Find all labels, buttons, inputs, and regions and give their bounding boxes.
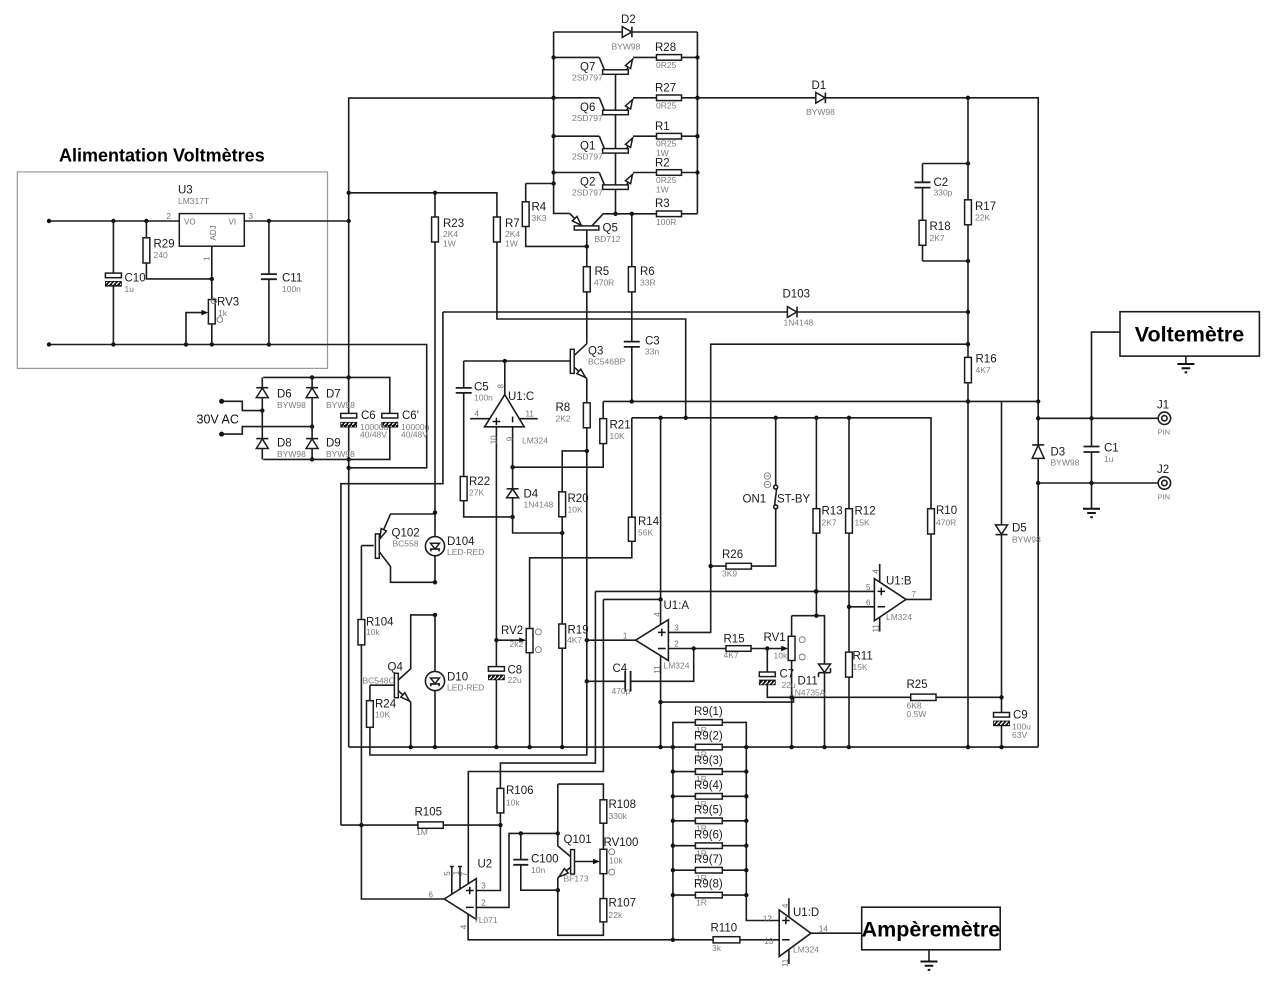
label U1:D (793, 907, 819, 955)
svg-text:R9(3): R9(3) (694, 755, 723, 767)
wire: C11 leads (268, 221, 270, 345)
wire: op-amp +V rail y417.8 (632, 416, 931, 509)
svg-text:R20: R20 (568, 493, 589, 505)
transistor Q102 (375, 514, 435, 582)
svg-text:LM317T: LM317T (178, 196, 209, 206)
svg-text:R29: R29 (154, 239, 175, 251)
wire: R5 bottom to Q3 collector (586, 292, 588, 344)
svg-text:Q4: Q4 (388, 662, 404, 674)
svg-text:BYW98: BYW98 (277, 449, 306, 459)
label C8 (508, 665, 523, 686)
svg-text:TL071: TL071 (474, 915, 498, 925)
svg-text:6: 6 (866, 598, 871, 607)
label C9 (1012, 710, 1031, 741)
svg-text:0.5W: 0.5W (907, 709, 927, 719)
svg-text:J1: J1 (1157, 400, 1169, 412)
svg-text:D1: D1 (812, 80, 827, 92)
wire: U1:D output (811, 932, 862, 934)
label R14 (638, 516, 660, 538)
wire: D11 bottom (824, 673, 826, 747)
svg-text:1: 1 (623, 631, 628, 640)
label R9(8) (694, 879, 723, 908)
wire: RV2 bottom (529, 653, 531, 747)
svg-text:2: 2 (481, 898, 486, 907)
svg-text:D5: D5 (1012, 523, 1027, 535)
wire: R6 bottom to C3 (631, 292, 633, 342)
wire: Q6 row y97.8 (554, 97, 698, 99)
svg-text:330p: 330p (934, 188, 953, 198)
Amperemetre box (862, 907, 1001, 950)
svg-text:R26: R26 (722, 549, 743, 561)
svg-text:8: 8 (497, 384, 506, 389)
wire: J2 row y483 (1038, 481, 1158, 485)
svg-text:4: 4 (653, 612, 662, 617)
svg-text:BF173: BF173 (564, 874, 589, 884)
wire: RV1 bottom (791, 661, 793, 748)
wire: bus y591.4 to U1:B plus (595, 589, 874, 593)
label R2 (655, 158, 677, 195)
svg-text:ST-BY: ST-BY (777, 494, 811, 506)
svg-text:U2: U2 (478, 859, 493, 871)
resistor R19 (559, 624, 566, 648)
resistor R11 (846, 652, 853, 677)
resistor R6 (628, 267, 635, 292)
label R8 (556, 402, 571, 424)
diode D6 (256, 388, 268, 398)
wire: R26 row y566.1 (711, 509, 776, 566)
wire: Q101 emitter to R107 bottom (558, 878, 604, 935)
svg-text:D7: D7 (326, 389, 341, 401)
label 30V AC (197, 413, 239, 427)
label R3 (655, 198, 676, 227)
label C11 (282, 273, 302, 295)
label D5 (1012, 523, 1041, 545)
svg-text:R9(6): R9(6) (694, 829, 723, 841)
wire: RV2 wiper (496, 639, 523, 641)
wire: U1:C plus to RV2 wiper and C8 x496.4 (494, 427, 498, 747)
svg-text:RV1: RV1 (764, 632, 786, 644)
svg-text:Alimentation Voltmètres: Alimentation Voltmètres (59, 146, 265, 166)
label R21 (610, 420, 631, 442)
resistor R26 (726, 563, 751, 569)
label C100 (531, 854, 559, 876)
diode D3 (1032, 445, 1044, 459)
label R12 (855, 506, 876, 528)
wire: R7 bottom to +Vop rail (497, 242, 686, 418)
diode D103 (787, 307, 797, 318)
resistor R106 (497, 788, 504, 813)
svg-text:10K: 10K (610, 431, 625, 441)
wire: R108-RV100-R107 chain x603.4 (602, 823, 604, 898)
svg-text:ADJ: ADJ (209, 225, 218, 240)
svg-text:10k: 10k (366, 627, 380, 637)
svg-text:R105: R105 (415, 807, 443, 819)
svg-text:1W: 1W (656, 148, 669, 158)
svg-text:RV100: RV100 (604, 837, 639, 849)
wire: C2/R18 branch x922.5 (923, 161, 971, 263)
zener diode D11 (819, 664, 831, 677)
label D11 (790, 676, 826, 698)
transistor Q7 (599, 57, 633, 74)
svg-text:C6: C6 (361, 410, 376, 422)
label D103 (783, 289, 814, 328)
svg-text:D8: D8 (277, 438, 292, 450)
label C7 (780, 669, 796, 691)
wire: main +V rail to PSU x348.7 (347, 98, 554, 413)
svg-text:RV3: RV3 (217, 297, 239, 309)
svg-text:PIN: PIN (1158, 493, 1171, 502)
svg-text:7: 7 (460, 871, 469, 876)
wire: R9 ladder left rail x672.9 (671, 722, 696, 939)
wire: Q7 row y57.4 (554, 56, 698, 58)
svg-text:R9(7): R9(7) (694, 854, 723, 866)
capacitor C5 (456, 388, 472, 393)
switch ON1 (764, 473, 778, 509)
svg-text:R9(5): R9(5) (694, 804, 723, 816)
resistor R23 (432, 217, 439, 242)
diode D2 (622, 27, 632, 38)
label Q101 (564, 834, 592, 884)
ground below C1 (1083, 509, 1100, 517)
wire: R14 feed x631.8 (631, 418, 633, 517)
svg-text:15K: 15K (853, 662, 868, 672)
diode D8 (256, 439, 268, 449)
svg-text:R28: R28 (655, 42, 676, 54)
label Q2 (572, 177, 603, 198)
wire: R4 top connection (526, 184, 554, 202)
wire: RV3 bottom (211, 324, 213, 345)
svg-text:2SD797: 2SD797 (572, 188, 603, 198)
svg-text:D9: D9 (326, 438, 341, 450)
svg-text:BYW98: BYW98 (326, 400, 355, 410)
svg-text:4: 4 (872, 569, 881, 574)
wire: R106 bottom (499, 813, 501, 825)
svg-text:4K7: 4K7 (976, 365, 991, 375)
svg-text:1N4148: 1N4148 (524, 500, 554, 510)
svg-text:3K9: 3K9 (722, 569, 737, 579)
svg-text:9: 9 (505, 436, 514, 441)
resistor R18 (919, 220, 926, 245)
wire: R9 ladder right rail x746.3 (722, 722, 779, 920)
svg-text:100n: 100n (282, 284, 301, 294)
svg-text:1W: 1W (505, 239, 518, 249)
svg-text:ON1: ON1 (743, 494, 767, 506)
wire: R9 row stubs (673, 772, 746, 896)
resistor R5 (583, 267, 590, 292)
resistor R29 (143, 238, 150, 263)
potentiometer RV2 (519, 629, 541, 653)
wire: C1 leads and ground stem (1091, 418, 1093, 509)
svg-text:100R: 100R (656, 217, 676, 227)
wire: R4 bottom to Q5 base (526, 227, 589, 249)
label R10 (936, 505, 957, 528)
svg-text:R11: R11 (853, 651, 873, 663)
svg-text:C1: C1 (1104, 443, 1119, 455)
label R105 (415, 807, 443, 838)
transistor Q1 (599, 136, 633, 153)
wire: U1:A plus feed y344.2 (668, 344, 968, 632)
svg-text:6: 6 (429, 890, 434, 899)
capacitor C2 (915, 182, 931, 187)
svg-text:2K7: 2K7 (930, 233, 945, 243)
wire: R29 leads (146, 221, 214, 281)
svg-text:Q5: Q5 (603, 223, 618, 235)
svg-text:2K7: 2K7 (822, 518, 837, 528)
wire: top D2 jumper y32 (554, 31, 698, 33)
op-amp U1:C (470, 384, 538, 445)
resistor R8 (583, 403, 590, 428)
label U2 (474, 859, 498, 926)
resistor R4 (522, 202, 529, 227)
label D3 (1051, 447, 1080, 468)
wire: U2 minus feedback to C100 top (476, 831, 560, 907)
LED D10 (425, 615, 444, 747)
svg-text:10k: 10k (506, 798, 520, 808)
transistor Q2 (599, 173, 633, 190)
svg-text:4: 4 (475, 409, 480, 418)
svg-text:7: 7 (912, 590, 917, 599)
svg-text:J2: J2 (1157, 464, 1169, 476)
svg-text:C11: C11 (282, 273, 302, 285)
svg-text:15K: 15K (855, 518, 870, 528)
svg-text:R5: R5 (595, 266, 610, 278)
resistor R13 (813, 509, 820, 533)
connector J2 (1158, 477, 1170, 489)
wire: PSU bottom rail y344.5 dots (47, 342, 271, 346)
svg-text:R106: R106 (506, 785, 534, 797)
capacitor C4 (625, 671, 630, 692)
wire: Q101 base to RV100 (574, 861, 596, 863)
resistor R21 (600, 419, 607, 444)
wire: R3 row y213.8 (613, 212, 697, 216)
svg-text:LM324: LM324 (522, 436, 548, 446)
label C3 (645, 336, 660, 357)
svg-text:VO: VO (184, 218, 196, 227)
svg-text:2K2: 2K2 (556, 414, 571, 424)
wire: U1:A V+ vertical x660.6 (658, 418, 662, 625)
diode D7 (306, 388, 318, 398)
label C5 (474, 382, 493, 403)
svg-text:12: 12 (763, 914, 772, 923)
svg-text:R107: R107 (609, 898, 637, 910)
resistor R9(1) (695, 720, 722, 726)
svg-text:2: 2 (167, 212, 172, 221)
svg-text:40/48V: 40/48V (401, 430, 428, 440)
svg-text:C10: C10 (125, 273, 146, 285)
capacitor C6' (382, 413, 398, 427)
wire: U1:B minus y606.8 (849, 606, 874, 608)
svg-text:R3: R3 (655, 198, 670, 210)
wire: V+ drop to U2 pin7 (468, 599, 603, 883)
svg-text:R17: R17 (975, 201, 996, 213)
wire: bridge right leg x312.1 (310, 377, 314, 461)
wire: R20 branch (562, 451, 587, 492)
svg-text:3: 3 (481, 882, 486, 891)
svg-text:U1:D: U1:D (793, 907, 819, 919)
svg-text:R9(2): R9(2) (694, 731, 723, 743)
resistor R12 (846, 509, 853, 533)
svg-text:5: 5 (443, 871, 452, 876)
wire: U1:A minus y648.5 (668, 646, 785, 650)
resistor R17 (965, 200, 972, 225)
wire: Q3 base y361 (464, 359, 571, 363)
label R104 (366, 617, 394, 638)
label Q1 (572, 141, 603, 162)
wire: D103 to R105 chain (341, 312, 443, 827)
wire: R6 top lead (631, 214, 633, 267)
svg-text:10n: 10n (531, 865, 545, 875)
label R17 (975, 201, 996, 223)
op-amp U1:D (763, 898, 828, 967)
capacitor C1 (1084, 447, 1100, 453)
svg-text:BYW98: BYW98 (326, 449, 355, 459)
svg-text:0R25: 0R25 (656, 139, 677, 149)
svg-text:Voltemètre: Voltemètre (1135, 323, 1245, 347)
svg-text:4: 4 (459, 924, 468, 929)
label R9(4) (694, 780, 723, 809)
label RV3 (217, 297, 239, 319)
wire: output divider vertical x968 (966, 96, 970, 750)
svg-text:R27: R27 (655, 83, 676, 95)
transistor Q5 (570, 213, 616, 230)
svg-text:R2: R2 (655, 158, 670, 170)
svg-text:1M: 1M (416, 827, 428, 837)
svg-text:27K: 27K (469, 488, 484, 498)
svg-text:R12: R12 (855, 506, 876, 518)
resistor R25 (911, 694, 936, 700)
svg-text:BC548C: BC548C (363, 676, 395, 686)
wire: left collector rail x553.6 (551, 32, 569, 213)
wire: C7 top lead (766, 649, 768, 673)
wire: Q101 collector rail x557.8 (557, 784, 559, 846)
svg-text:3K3: 3K3 (532, 213, 547, 223)
svg-text:240: 240 (154, 250, 168, 260)
wire: RV3 wiper to 0V (186, 313, 206, 345)
capacitor C3 (624, 342, 640, 347)
svg-text:13: 13 (764, 937, 773, 946)
svg-text:0R25: 0R25 (656, 175, 677, 185)
svg-text:0R25: 0R25 (656, 101, 677, 111)
wire: R12/R11 vertical x849 (847, 418, 851, 747)
label R106 (506, 785, 534, 808)
label Q102 (392, 528, 420, 549)
ground below Voltemetre (1177, 356, 1194, 372)
svg-text:40/48V: 40/48V (360, 430, 387, 440)
svg-text:PIN: PIN (1158, 428, 1171, 437)
wire: R25 row y697.3 (767, 685, 1001, 700)
resistor R9(5) (695, 818, 722, 824)
wire: R14 bottom to RV2 top (530, 541, 632, 628)
wire: R104 line x361.4 (361, 546, 373, 826)
svg-text:2k2: 2k2 (510, 639, 524, 649)
wire: ON1 switch top feed (775, 418, 777, 485)
label R19 (567, 625, 589, 646)
svg-text:1u: 1u (1104, 454, 1114, 464)
label C10 (125, 273, 146, 295)
wire: right emitter rail x697.4 (695, 32, 699, 214)
svg-text:R13: R13 (822, 506, 843, 518)
svg-text:R4: R4 (532, 202, 547, 214)
svg-text:R9(4): R9(4) (694, 780, 723, 792)
wire: R21 bottom to D4 (510, 444, 603, 470)
svg-text:3: 3 (249, 212, 254, 221)
ground below Amperemetre (921, 950, 938, 970)
svg-text:4K7: 4K7 (724, 650, 739, 660)
svg-text:BYW98: BYW98 (612, 42, 641, 52)
svg-text:1k: 1k (218, 308, 228, 318)
wire: U1:B output to R10 (906, 534, 931, 599)
label R4 (532, 202, 547, 224)
resistor R107 (600, 899, 607, 922)
label Q6 (572, 102, 603, 123)
capacitor C9 (994, 713, 1010, 726)
svg-text:U1:C: U1:C (508, 391, 534, 403)
label U1:A (664, 600, 690, 671)
svg-text:BC558: BC558 (393, 539, 419, 549)
label R23 (443, 218, 464, 249)
label R25 (907, 679, 928, 719)
wire: common bus y747.1 (349, 745, 1038, 749)
resistor R20 (559, 492, 566, 517)
svg-text:2: 2 (674, 640, 679, 649)
resistor R14 (628, 517, 635, 541)
label D4 (524, 489, 554, 510)
svg-text:3k: 3k (712, 943, 722, 953)
svg-text:R22: R22 (469, 476, 490, 488)
svg-text:BYW98: BYW98 (1051, 458, 1080, 468)
svg-text:U3: U3 (178, 185, 193, 197)
svg-text:C6': C6' (402, 410, 419, 422)
op-amp U1:A (623, 612, 679, 674)
wire: bridge minus rail y459.4 (263, 458, 390, 460)
svg-text:22u: 22u (508, 675, 522, 685)
label D10 (447, 672, 484, 693)
capacitor C8 (488, 667, 504, 680)
svg-text:LM324: LM324 (793, 945, 819, 955)
resistor R15 (726, 646, 751, 652)
svg-text:1R: 1R (696, 898, 707, 908)
resistor R9(7) (695, 867, 722, 873)
wire: R13 vertical (814, 418, 818, 616)
label U1:C (508, 391, 548, 446)
wire: R23 bottom long drop x435 (434, 193, 436, 513)
svg-text:22K: 22K (975, 213, 990, 223)
wire: J1 row y418.3 (1038, 417, 1158, 419)
resistor R1 (657, 133, 682, 139)
wire: D1 output corner drop x1038.2 (1036, 401, 1040, 747)
label R22 (469, 476, 490, 498)
resistor R108 (600, 800, 607, 823)
label R9(5) (694, 804, 723, 833)
svg-text:470R: 470R (594, 278, 614, 288)
wire: U3 ADJ to RV3 (211, 246, 213, 299)
wire: bridge plus rail y377.4 (263, 375, 390, 413)
label D2 (612, 14, 641, 52)
svg-text:LM324: LM324 (886, 612, 912, 622)
svg-text:10k: 10k (774, 651, 788, 661)
label R29 (154, 239, 175, 261)
label R15 (724, 634, 745, 661)
resistor R9(6) (695, 843, 722, 849)
wire: D5 branch x1001.5 (999, 401, 1003, 747)
wire: U1:C minus to D4 chain x512.6 (513, 427, 565, 535)
wire: PSU top rail y221 (47, 219, 349, 223)
svg-text:1W: 1W (656, 185, 669, 195)
capacitor C11 (261, 274, 277, 279)
resistor R110 (713, 937, 740, 943)
wire: PSU 0V return path (49, 345, 427, 468)
resistor R9(8) (695, 892, 722, 898)
